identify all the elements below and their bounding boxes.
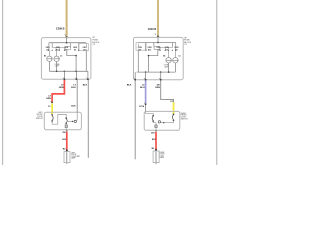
wire courtesy red right (155, 132, 157, 150)
svg-text:DOME: DOME (55, 64, 60, 66)
lamp symbol L4 (right box) (173, 51, 179, 63)
wire links (in SW2) (153, 122, 156, 123)
svg-text:B6: B6 (44, 55, 46, 57)
wire LT BLU drop to SW1 (76, 80, 78, 112)
pin label cluster D (left box) (73, 47, 78, 51)
terminal rect (in SW1) (65, 125, 67, 128)
switch blade right (in SW2) (173, 113, 175, 121)
switch blade left (in SW2) (152, 115, 154, 122)
I/P fuse block U2 (right) (134, 37, 184, 79)
wire LT GRN red segment upper (52, 80, 64, 102)
wire bus2 drops to pins (right) (135, 72, 161, 80)
lamp symbol L3 (right box) (166, 51, 172, 63)
right door jamb switch box SW2 (144, 111, 180, 130)
wire BLK long left (87, 80, 89, 158)
svg-text:BLU: BLU (140, 87, 145, 89)
stub below lamp E1 (66, 163, 68, 164)
svg-text:GRN: GRN (155, 87, 160, 89)
relay in sub box (85, 44, 87, 48)
connector C210 pin symbol (155, 34, 159, 38)
pin dots row (right) (145, 50, 176, 51)
right door courtesy lamp E2 (153, 151, 159, 163)
page border left (2, 0, 4, 165)
svg-text:COURTESY: COURTESY (71, 156, 81, 158)
svg-text:C3: C3 (178, 55, 180, 57)
svg-text:E8: E8 (83, 49, 85, 51)
wire YEL segment left (51, 103, 53, 114)
wire to SW2 bottom (155, 123, 157, 131)
svg-text:BLU: BLU (71, 87, 76, 89)
svg-text:LEFT: LEFT (71, 152, 75, 154)
wire bus drops right (146, 43, 176, 51)
sub box C2 (right) (136, 43, 145, 51)
svg-text:GRN: GRN (46, 98, 51, 100)
wire entry drop (right block) (157, 37, 159, 42)
svg-text:S714: S714 (139, 105, 145, 108)
stub below lamp E2 (155, 163, 157, 165)
wire to SW1 bottom (65, 124, 67, 130)
connector C209 pin symbol (65, 35, 68, 39)
svg-text:RIGHT: RIGHT (160, 152, 165, 154)
wire L mid (right) (138, 50, 175, 72)
pin label cluster C (left box) (64, 47, 69, 51)
svg-text:BLK: BLK (71, 106, 76, 108)
wire inside SW2 entry (146, 111, 154, 115)
svg-text:B6: B6 (163, 55, 165, 57)
wire LT BLU violet segment (145, 81, 147, 104)
lamp pin labels (left box) (44, 55, 62, 57)
wire bus drops left (49, 43, 79, 50)
wire bus2 drops to pins (left) (64, 71, 88, 79)
sub box C2 (left) (79, 44, 88, 51)
pin dots row (left) (48, 50, 79, 51)
terminal dot left lamp (66, 150, 68, 152)
svg-text:GRN: GRN (59, 87, 64, 89)
mini bus (right) (160, 47, 172, 49)
relay in sub box right (137, 44, 139, 48)
actuator circle (in SW1) (74, 120, 76, 122)
wire inside SW1 (52, 114, 66, 124)
pin label cluster E (right box) (174, 47, 179, 51)
svg-text:A4: A4 (139, 48, 141, 51)
fuse F5 (154, 46, 159, 49)
pin label cluster D (right box) (165, 47, 170, 51)
svg-text:BLK: BLK (127, 85, 132, 87)
terminal dot right lamp (155, 149, 157, 151)
pin label cluster C (right box) (156, 47, 161, 51)
wire from top entry to circle (in SW1) (76, 112, 77, 121)
svg-text:C210 B: C210 B (148, 28, 157, 31)
lamp symbol L2 (left box) (54, 51, 60, 62)
switch blade mid (in SW1) (65, 117, 67, 124)
splice S2 (145, 103, 147, 105)
page border right (216, 0, 218, 165)
wire courtesy red left (66, 132, 68, 150)
left door jamb switch box SW1 (44, 112, 81, 130)
wire stub into SW2 (145, 105, 147, 111)
svg-text:SWITCH: SWITCH (181, 119, 188, 121)
pin label cluster E (left box) (83, 47, 88, 51)
I/P fuse block U1 (left) (41, 38, 91, 80)
svg-text:A4: A4 (46, 48, 48, 51)
fuse F1 (65, 47, 70, 50)
wire DK GRN jog right (161, 81, 174, 103)
node bus1 right (138, 42, 175, 44)
pins from mini bus (right) (160, 48, 169, 51)
left door courtesy lamp E1 (64, 152, 70, 163)
lamp pin labels (right box) (163, 55, 180, 57)
wire ORN feed right (157, 0, 159, 36)
actuator circle (in SW2) (158, 121, 160, 123)
wire YEL segment right (173, 102, 175, 113)
pin label cluster A (left box) (46, 47, 51, 51)
lamp symbol L1 (left box) (47, 51, 53, 62)
switch blade left (in SW1) (51, 114, 53, 122)
node bus2 right (137, 71, 176, 73)
bottom pin terminals (right box) (134, 79, 161, 81)
svg-text:C3: C3 (60, 55, 62, 57)
svg-text:SWITCH: SWITCH (36, 118, 43, 120)
mini bus (left) (52, 47, 64, 49)
svg-text:D2: D2 (166, 49, 168, 51)
wire stub below SW1 (66, 130, 68, 132)
wire BLK long right (134, 81, 136, 160)
splice S1 (51, 102, 53, 104)
svg-text:CTSY: CTSY (160, 155, 164, 157)
wire entry drop (left block) (66, 38, 68, 43)
node bus1 left (49, 42, 86, 44)
wire circle link (in SW1) (67, 120, 74, 122)
wire L mid (left) (49, 51, 86, 72)
terminal rect (in SW2) (155, 125, 157, 128)
node bus2 left (49, 70, 88, 72)
svg-text:BLK: BLK (83, 84, 88, 86)
svg-text:DOME: DOME (164, 65, 169, 67)
svg-text:D2: D2 (74, 49, 76, 51)
pin label cluster B (right box) (148, 47, 153, 51)
pins from mini bus (left) (56, 48, 65, 51)
wire stub below SW2 (155, 130, 157, 131)
pin label cluster A (right box) (138, 47, 143, 51)
wire ORN feed left (node B+) (66, 0, 68, 37)
svg-text:B12: B12 (148, 49, 151, 51)
svg-text:C209 B: C209 B (56, 28, 65, 31)
bottom pin terminals (left box) (64, 78, 89, 80)
pin label cluster B (left box) (56, 47, 61, 51)
